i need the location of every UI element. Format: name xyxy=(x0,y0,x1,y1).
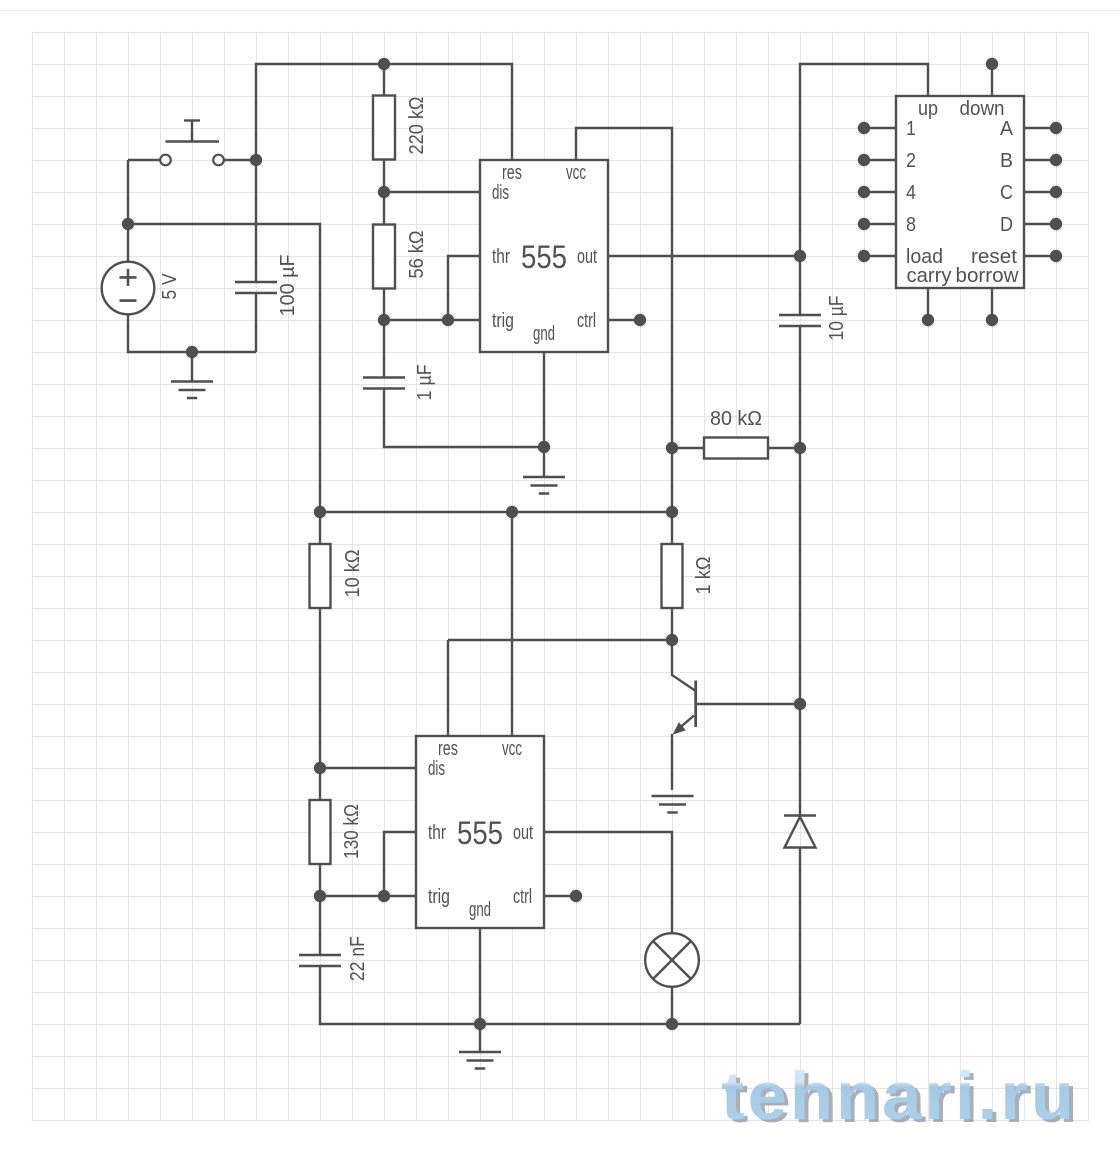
node dis2 xyxy=(314,762,326,774)
svg-text:1 kΩ: 1 kΩ xyxy=(693,556,715,594)
counter right pin nodes xyxy=(1050,122,1062,262)
svg-text:dis: dis xyxy=(492,182,509,204)
capacitor C4 10uF xyxy=(779,315,821,326)
pushbutton S1 xyxy=(160,121,224,166)
svg-text:1 µF: 1 µF xyxy=(414,364,436,400)
pin label trig (U1) xyxy=(492,310,514,332)
label 220 kOhm xyxy=(406,96,428,154)
wire node to R1 xyxy=(383,64,385,96)
svg-text:22 nF: 22 nF xyxy=(347,936,369,981)
label 56 kOhm xyxy=(406,230,428,278)
wire to C4 10uF xyxy=(799,256,801,315)
capacitor C3 22nF xyxy=(299,955,341,966)
svg-text:2: 2 xyxy=(906,150,916,172)
svg-text:5 V: 5 V xyxy=(159,273,181,300)
wire button to node xyxy=(224,159,256,161)
wire top rail to res pin xyxy=(256,64,512,160)
svg-text:4: 4 xyxy=(906,182,916,204)
node 5V plus xyxy=(122,218,134,230)
pin label thr (U2) xyxy=(428,822,446,844)
node borrow xyxy=(986,314,998,326)
node trig1-junction xyxy=(442,314,454,326)
capacitor C2 1uF xyxy=(363,378,405,389)
pin label 4 (U3) xyxy=(906,182,916,204)
svg-text:C: C xyxy=(1000,182,1013,204)
node out1 xyxy=(794,250,806,262)
svg-text:10 kΩ: 10 kΩ xyxy=(342,549,364,597)
pin label 8 (U3) xyxy=(906,214,916,236)
pin label res (U1) xyxy=(502,162,522,184)
svg-text:out: out xyxy=(513,822,533,844)
pin label ctrl (U2) xyxy=(513,886,532,908)
label 1 uF xyxy=(414,364,436,400)
ground (5V) xyxy=(171,382,213,399)
node dis1 xyxy=(378,186,390,198)
wire 80k right lead xyxy=(768,447,800,449)
pin label res (U2) xyxy=(438,738,458,760)
node ground rail xyxy=(186,346,198,358)
wire lamp to bottom rail xyxy=(671,987,673,1024)
label 10 uF xyxy=(826,296,848,341)
wire thr1 elbow xyxy=(448,256,480,320)
pin label 2 (U3) xyxy=(906,150,916,172)
wire dis1 xyxy=(384,191,480,193)
node collector xyxy=(666,634,678,646)
wire R2 to trig node xyxy=(383,288,385,377)
wire mid to R3 xyxy=(319,512,321,544)
wire trig1 xyxy=(384,319,480,321)
transistor Q1 collector lead xyxy=(672,640,695,691)
wire R4 to trig2 xyxy=(319,864,321,896)
counter left pin nodes xyxy=(858,122,870,262)
wire vcc2 riser xyxy=(511,512,513,736)
pin label up (U3) xyxy=(918,98,938,120)
pin label vcc (U1) xyxy=(566,162,586,184)
label 22 nF xyxy=(347,936,369,981)
pin label down (U3) xyxy=(960,98,1005,120)
node lamp-bottom xyxy=(666,1018,678,1030)
pin label reset (U3) xyxy=(971,246,1017,268)
svg-text:thr: thr xyxy=(428,822,446,844)
label U2 555 xyxy=(457,815,503,851)
wire down stub xyxy=(991,64,993,96)
ground (Q1 emitter) xyxy=(652,796,694,813)
node 80k-left xyxy=(666,442,678,454)
wire out2 to lamp xyxy=(544,832,672,934)
label 1 kOhm xyxy=(693,556,715,594)
wire button left lead xyxy=(128,159,160,161)
wire ctrl2 stub xyxy=(544,895,576,897)
wire gnd2 stub xyxy=(479,928,481,1024)
wire 5V minus to ground rail xyxy=(128,314,256,352)
wire Q1 base to node xyxy=(696,703,800,705)
wire diode riser upper xyxy=(799,448,801,704)
svg-text:vcc: vcc xyxy=(502,738,522,760)
svg-text:dis: dis xyxy=(428,758,445,780)
wire C4 to node xyxy=(799,326,801,448)
transistor Q1 base bar xyxy=(694,681,697,728)
resistor R5 80k xyxy=(704,438,768,459)
pin label dis (U1) xyxy=(492,182,509,204)
node gnd2 xyxy=(474,1018,486,1030)
svg-text:carry: carry xyxy=(907,265,952,287)
node trig1-left xyxy=(378,314,390,326)
svg-text:res: res xyxy=(438,738,458,760)
pin label borrow (U3) xyxy=(956,265,1020,287)
pin label out (U1) xyxy=(577,246,597,268)
counter U3 body xyxy=(896,96,1024,288)
wire thr2 elbow xyxy=(384,832,416,896)
pin label load (U3) xyxy=(906,246,943,268)
capacitor C1 100uF xyxy=(235,282,277,293)
svg-text:100 µF: 100 µF xyxy=(277,254,299,316)
pin label dis (U2) xyxy=(428,758,445,780)
wire mid rail xyxy=(320,511,672,513)
svg-text:A: A xyxy=(1000,118,1014,140)
wire C2 to gnd node xyxy=(384,389,544,448)
resistor R2 56k xyxy=(373,225,395,289)
svg-text:gnd: gnd xyxy=(533,323,555,345)
label 5 V xyxy=(159,273,181,300)
svg-text:220 kΩ: 220 kΩ xyxy=(406,96,428,154)
node button-right xyxy=(250,154,262,166)
node 80k-right xyxy=(794,442,806,454)
wire cap 100uF bottom lead xyxy=(255,293,257,352)
label 10 kOhm xyxy=(342,549,364,597)
resistor R3 10k xyxy=(310,544,331,608)
svg-text:56 kΩ: 56 kΩ xyxy=(406,230,428,278)
svg-text:trig: trig xyxy=(428,886,450,908)
counter carry stub xyxy=(927,288,929,320)
wire ground stub xyxy=(191,352,193,381)
svg-text:thr: thr xyxy=(492,246,510,268)
wire trig2 lead xyxy=(320,895,416,897)
diode D1 xyxy=(784,816,816,848)
wire dis2 lead xyxy=(320,767,416,769)
wire 80k left lead xyxy=(672,447,704,449)
svg-text:trig: trig xyxy=(492,310,514,332)
pin label gnd (U2) xyxy=(469,899,491,921)
wire trig2 to C3 xyxy=(319,896,321,955)
counter right pin stubs xyxy=(1024,128,1056,256)
wire res2 rail xyxy=(448,639,672,641)
ground (U2) xyxy=(459,1052,501,1069)
label U1 555 xyxy=(521,239,567,275)
svg-text:555: 555 xyxy=(457,815,503,851)
wire res2 drop xyxy=(447,640,449,736)
counter left pin stubs xyxy=(864,128,896,256)
wire R3 to dis2 xyxy=(319,608,321,768)
wire gnd1 tail xyxy=(543,447,545,477)
wire 5V plus lead xyxy=(127,160,129,262)
wire diode anode lead xyxy=(799,704,801,815)
pin label gnd (U1) xyxy=(533,323,555,345)
top hairline xyxy=(0,10,1120,12)
lamp LA1 xyxy=(645,933,699,987)
svg-text:10 µF: 10 µF xyxy=(826,296,848,341)
svg-text:555: 555 xyxy=(521,239,567,275)
pin label trig (U2) xyxy=(428,886,450,908)
svg-text:vcc: vcc xyxy=(566,162,586,184)
svg-text:borrow: borrow xyxy=(956,265,1020,287)
pin label C (U3) xyxy=(1000,182,1013,204)
wire C3 to bottom rail xyxy=(320,966,800,1024)
pin label out (U2) xyxy=(513,822,533,844)
wire gnd1 stub xyxy=(543,352,545,447)
node top rail 220k tap xyxy=(378,58,390,70)
node mid-center xyxy=(506,506,518,518)
svg-text:out: out xyxy=(577,246,597,268)
resistor R1 220k xyxy=(373,96,395,160)
pin label D (U3) xyxy=(1000,214,1013,236)
wire out1 xyxy=(608,255,800,257)
op-amp U1 555 body xyxy=(480,160,608,352)
svg-text:gnd: gnd xyxy=(469,899,491,921)
op-amp U2 555 body xyxy=(416,736,544,928)
pin label ctrl (U1) xyxy=(577,310,596,332)
wire diode cathode lead xyxy=(799,848,801,1025)
label 130 kOhm xyxy=(341,804,363,859)
wire gnd2 tail xyxy=(479,1024,481,1052)
wire 5V to x320 riser xyxy=(128,224,320,512)
node trig2-left xyxy=(314,890,326,902)
node down net xyxy=(986,58,998,70)
wire out1 riser to up pin xyxy=(800,64,928,256)
wire R1 to R2 xyxy=(383,160,385,225)
node ctrl2 dead-end xyxy=(570,890,582,902)
wire R6 to collector node xyxy=(671,608,673,640)
pin label carry (U3) xyxy=(907,265,952,287)
node carry xyxy=(922,314,934,326)
svg-text:D: D xyxy=(1000,214,1013,236)
wire vcc1 riser xyxy=(576,128,672,512)
ground (U1) xyxy=(523,477,565,494)
svg-text:130 kΩ: 130 kΩ xyxy=(341,804,363,859)
node base junction xyxy=(794,698,806,710)
resistor R6 1k xyxy=(662,544,683,608)
node gnd1 xyxy=(538,441,550,453)
label 100 uF xyxy=(277,254,299,316)
node trig2-junction xyxy=(378,890,390,902)
node ctrl1 dead-end xyxy=(634,314,646,326)
wire ctrl1 stub xyxy=(608,319,640,321)
pin label A (U3) xyxy=(1000,118,1014,140)
pin label 1 (U3) xyxy=(906,118,916,140)
node mid-right xyxy=(666,506,678,518)
svg-text:80 kΩ: 80 kΩ xyxy=(710,408,762,430)
voltage source V1 5V xyxy=(102,262,155,315)
svg-text:1: 1 xyxy=(906,118,916,140)
svg-text:tehnari.ru: tehnari.ru xyxy=(721,1058,1077,1134)
svg-text:ctrl: ctrl xyxy=(577,310,596,332)
pin label B (U3) xyxy=(1000,150,1013,172)
wire cap 100uF top lead xyxy=(255,160,257,282)
node mid-left xyxy=(314,506,326,518)
svg-text:8: 8 xyxy=(906,214,916,236)
pin label thr (U1) xyxy=(492,246,510,268)
wire dis2 to R4 xyxy=(319,768,321,800)
svg-text:up: up xyxy=(918,98,938,120)
pin label vcc (U2) xyxy=(502,738,522,760)
svg-text:down: down xyxy=(960,98,1005,120)
resistor R4 130k xyxy=(310,800,331,864)
label 80 kOhm xyxy=(710,408,762,430)
counter borrow stub xyxy=(991,288,993,320)
svg-text:res: res xyxy=(502,162,522,184)
svg-text:ctrl: ctrl xyxy=(513,886,532,908)
svg-text:B: B xyxy=(1000,150,1013,172)
transistor Q1 emitter xyxy=(672,716,694,791)
wire mid to R6 xyxy=(671,512,673,544)
